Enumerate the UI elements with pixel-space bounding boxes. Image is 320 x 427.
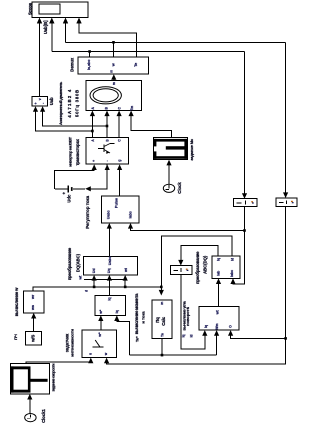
svg-text:вычисление момента: вычисление момента <box>134 293 139 334</box>
svg-text:Пq: Пq <box>155 317 160 323</box>
svg-text:Iq: Iq <box>216 258 220 261</box>
svg-text:транзисторах: транзисторах <box>75 138 80 165</box>
svg-text:w/S: w/S <box>30 334 35 342</box>
svg-text:Iabc: Iabc <box>129 211 133 218</box>
svg-text:u: u <box>88 353 92 355</box>
svg-text:инвертор на IGBT: инвертор на IGBT <box>68 136 73 166</box>
svg-text:Uq: Uq <box>107 268 111 273</box>
svg-text:w: w <box>104 352 108 356</box>
svg-text:Uab: Uab <box>49 97 54 105</box>
svg-text:ABC(DQ): ABC(DQ) <box>202 255 207 274</box>
svg-text:и тока: и тока <box>141 311 146 324</box>
svg-text:вычисление w: вычисление w <box>14 287 19 316</box>
svg-text:Demux: Demux <box>70 57 75 72</box>
svg-text:-: - <box>105 160 109 161</box>
svg-text:Uabc: Uabc <box>107 210 111 219</box>
svg-text:+: + <box>92 160 96 162</box>
svg-text:Te*: Te* <box>135 336 139 342</box>
svg-text:4А71В2 4: 4А71В2 4 <box>67 88 72 117</box>
svg-text:+: + <box>34 102 38 104</box>
svg-text:Iabc: Iabc <box>230 270 234 277</box>
svg-text:Id: Id <box>230 258 234 261</box>
svg-text:w: w <box>111 63 115 67</box>
svg-text:Ud: Ud <box>92 268 96 273</box>
svg-text:id: id <box>189 335 193 338</box>
svg-text:Регулятор тока: Регулятор тока <box>85 195 90 228</box>
svg-text:Is,abc: Is,abc <box>87 60 91 70</box>
svg-text:+: + <box>61 191 66 194</box>
svg-text:50Гц 380В: 50Гц 380В <box>75 89 80 117</box>
svg-text:v: v <box>38 98 42 100</box>
svg-text:Асинхронный двигатель: Асинхронный двигатель <box>58 81 63 125</box>
svg-text:задание скорости: задание скорости <box>52 363 56 392</box>
svg-text:ws: ws <box>31 305 35 311</box>
svg-text:Iab: Iab <box>216 271 220 276</box>
svg-text:d: d <box>85 290 89 292</box>
svg-text:Clock: Clock <box>177 182 182 194</box>
svg-text:преобразование: преобразование <box>67 247 72 280</box>
svg-text:Iq: Iq <box>204 325 208 328</box>
svg-text:интенсивности: интенсивности <box>69 329 74 357</box>
svg-text:wt: wt <box>124 267 128 273</box>
svg-text:задание Мс: задание Мс <box>189 138 194 161</box>
svg-text:iq: iq <box>115 310 119 313</box>
svg-text:Pulse: Pulse <box>115 198 119 208</box>
svg-text:g: g <box>118 160 122 162</box>
svg-text:w*: w* <box>98 332 102 338</box>
svg-text:m: m <box>110 70 114 73</box>
svg-text:Tm: Tm <box>130 106 134 111</box>
svg-text:Wm: Wm <box>215 323 219 329</box>
svg-text:O: O <box>228 325 232 328</box>
svg-text:m: m <box>160 302 164 305</box>
svg-text:Uabc: Uabc <box>108 256 112 265</box>
svg-text:wt: wt <box>216 309 220 315</box>
svg-text:Uab[B]: Uab[B] <box>43 20 48 34</box>
svg-text:ПЧ: ПЧ <box>13 334 18 340</box>
svg-text:Scope: Scope <box>28 2 33 15</box>
svg-text:преобразование: преобразование <box>195 251 200 284</box>
svg-text:m: m <box>112 82 116 85</box>
svg-text:iq: iq <box>182 335 186 338</box>
svg-text:Te: Te <box>134 63 138 67</box>
svg-text:Calc: Calc <box>161 316 166 326</box>
svg-text:DQ(ABC): DQ(ABC) <box>76 253 81 272</box>
svg-text:Te: Te <box>160 333 164 337</box>
svg-text:Clock1: Clock1 <box>41 408 46 422</box>
svg-text:Iq: Iq <box>108 297 112 300</box>
svg-text:Udc: Udc <box>67 194 72 203</box>
svg-text:поворота: поворота <box>185 306 190 325</box>
svg-text:wr: wr <box>31 294 35 300</box>
svg-text:w*: w* <box>99 309 103 315</box>
